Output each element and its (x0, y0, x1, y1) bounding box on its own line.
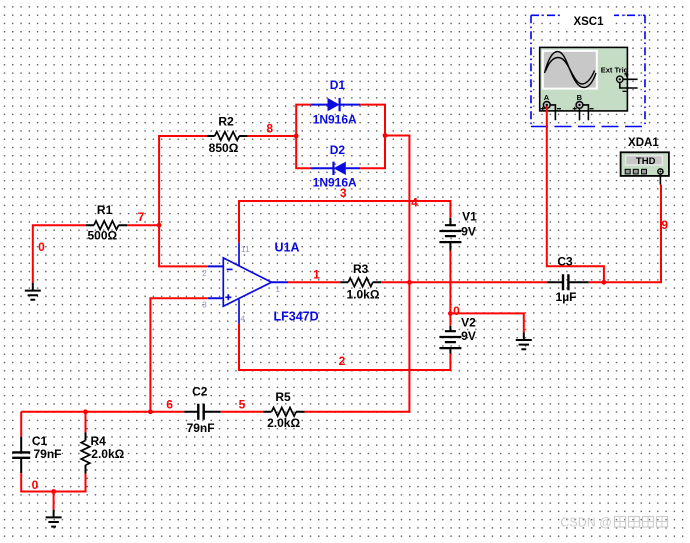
svg-text:4: 4 (240, 313, 245, 323)
svg-text:3: 3 (202, 300, 207, 310)
svg-text:1N916A: 1N916A (313, 176, 357, 190)
svg-text:R3: R3 (353, 262, 369, 276)
svg-text:9V: 9V (461, 225, 476, 239)
svg-text:5: 5 (239, 398, 246, 412)
svg-text:7: 7 (138, 210, 145, 224)
wire diode box right to long vertical net 4 (305, 136, 410, 412)
svg-text:R5: R5 (275, 390, 291, 404)
ext trig pin wires (620, 79, 638, 88)
ground left of R1 (net 0) (25, 283, 41, 300)
junction node 8 (diode box left) (294, 134, 299, 139)
svg-text:850Ω: 850Ω (209, 141, 239, 155)
wire diode box left side (296, 105, 310, 169)
capacitor C2 79nF (184, 411, 221, 413)
junction diode box right (383, 133, 388, 138)
op-amp input stubs (208, 266, 224, 298)
wire node 7 up to R2 (159, 136, 207, 225)
svg-text:R1: R1 (97, 203, 113, 217)
svg-text:1.0kΩ: 1.0kΩ (347, 287, 380, 301)
wire node 0 to right ground (450, 313, 523, 332)
wire diode box right side (360, 105, 385, 169)
svg-text:2.0kΩ: 2.0kΩ (267, 416, 300, 430)
svg-text:V1: V1 (462, 210, 477, 224)
svg-text:U1A: U1A (275, 241, 300, 255)
distortion analyzer body (621, 152, 669, 176)
svg-text:D1: D1 (330, 78, 346, 92)
wire C1 bottom to R4 bottom (21, 473, 85, 491)
svg-text:2: 2 (339, 354, 346, 368)
button 1 (625, 169, 630, 174)
battery V2 9V (449, 326, 451, 354)
battery V1 9V (449, 218, 451, 251)
terminal B stub pin (579, 108, 581, 120)
wire R3 right to C3 (381, 281, 547, 283)
XDA1 terminal (658, 169, 663, 174)
ext trig minus mark (623, 90, 627, 92)
svg-text:2: 2 (202, 268, 207, 278)
terminal B (576, 102, 583, 109)
svg-text:1N916A: 1N916A (313, 112, 357, 126)
terminal A plus mark (541, 107, 545, 111)
resistor R4 2.0kohm (85, 433, 87, 474)
junction bottom ground tee (51, 489, 56, 494)
capacitor C1 79nF (20, 437, 22, 473)
button 3 (642, 169, 647, 174)
wire net 5 between C2 and R5 (221, 411, 264, 413)
terminal A hook pin (550, 105, 555, 120)
svg-text:D2: D2 (330, 143, 346, 157)
svg-text:0: 0 (453, 304, 460, 318)
wire C3 right to node 9 corner up to XDA1 (589, 185, 661, 283)
wire node 7 down to op-amp minus input (159, 225, 208, 266)
wire V1 minus down through to V2 plus (449, 251, 451, 326)
oscilloscope screen (543, 51, 597, 89)
diode D1 1N916A (311, 104, 361, 106)
svg-text:2.0kΩ: 2.0kΩ (91, 447, 124, 461)
svg-text:Ext Trig: Ext Trig (601, 65, 629, 74)
resistor R1 500ohm (86, 224, 127, 226)
svg-text:4: 4 (411, 196, 418, 210)
svg-text:8: 8 (266, 122, 273, 136)
svg-text:CSDN @: CSDN @ (560, 516, 612, 530)
ext trig plus mark (625, 73, 629, 77)
white backing for XSC1 label (563, 12, 614, 27)
op-amp power stubs pins 11 and 4 (238, 243, 240, 324)
op-amp output stub pin 1 (272, 281, 289, 283)
wire net 0 left (R1 left to ground) (33, 225, 86, 283)
svg-text:C2: C2 (192, 385, 208, 399)
junction node 6 (148, 409, 153, 414)
terminal B plus mark (573, 107, 577, 111)
wire scope channel A down to node 9 tee (547, 106, 604, 282)
svg-text:0: 0 (32, 478, 39, 492)
svg-text:6: 6 (166, 398, 173, 412)
wire op-amp plus input to node 6 (150, 298, 207, 412)
oscilloscope sine trace small (546, 58, 595, 85)
svg-text:9V: 9V (461, 329, 476, 343)
svg-text:1: 1 (313, 268, 320, 282)
resistor R3 1.0kohm (340, 281, 381, 283)
op-amp U1A triangle (223, 258, 271, 306)
distortion analyzer display (626, 156, 663, 165)
wire net 2 bottom rail (pin 4 to V2) (239, 324, 450, 370)
svg-text:3: 3 (340, 186, 347, 200)
wire R1 right to node 7 (127, 224, 159, 226)
wire net 1 op-amp output (288, 281, 340, 283)
wire net 3 top rail (pin 11 to V1) (239, 201, 450, 243)
svg-text:500Ω: 500Ω (87, 229, 117, 243)
ground right of V2 (net 0) (516, 332, 532, 349)
diode D2 1N916A (311, 167, 361, 169)
svg-text:XSC1: XSC1 (573, 16, 604, 28)
svg-text:9: 9 (661, 218, 668, 232)
junction R4 top (83, 409, 88, 414)
svg-text:THD: THD (636, 156, 656, 167)
svg-text:1: 1 (275, 284, 280, 294)
junction net 4 vertical with R3-C3 wire (407, 280, 412, 285)
op-amp plus sign (225, 294, 231, 300)
wire net 6 horizontal (21, 411, 184, 413)
svg-text:R2: R2 (218, 114, 234, 128)
junction node 7 (157, 223, 162, 228)
XDA1 terminal stub (659, 174, 661, 185)
junction node 9 tee (602, 280, 607, 285)
button 2 (633, 169, 638, 174)
svg-text:LF347D: LF347D (274, 310, 319, 324)
ext trig terminal (617, 76, 623, 82)
wire stub to bottom ground (53, 492, 55, 510)
terminal B hook pin (583, 105, 589, 120)
svg-text:XDA1: XDA1 (628, 137, 659, 149)
terminal B minus mark (590, 108, 594, 110)
svg-text:0: 0 (38, 240, 45, 254)
wire R2 right to node 8 (248, 135, 297, 137)
ground bottom (net 0) (46, 510, 62, 527)
wire R4 top lead (85, 412, 87, 433)
wire C1 branch (20, 412, 22, 437)
oscilloscope body (540, 47, 628, 111)
resistor R2 850ohm (207, 135, 248, 137)
op-amp minus sign (227, 268, 233, 270)
resistor R5 2.0kohm (264, 411, 305, 413)
terminal A minus mark (557, 108, 561, 110)
terminal A (543, 102, 550, 109)
junction node 0 between V1 V2 (448, 311, 453, 316)
svg-text:11: 11 (241, 244, 250, 254)
svg-text:79nF: 79nF (187, 421, 215, 435)
svg-text:V2: V2 (461, 316, 476, 330)
oscilloscope sine trace large (545, 52, 597, 88)
svg-text:79nF: 79nF (33, 447, 61, 461)
watermark glyphs (615, 517, 626, 528)
oscilloscope XSC1 selection dashed box (531, 14, 645, 16)
capacitor C3 1uF (547, 281, 589, 283)
svg-text:1µF: 1µF (556, 290, 577, 304)
